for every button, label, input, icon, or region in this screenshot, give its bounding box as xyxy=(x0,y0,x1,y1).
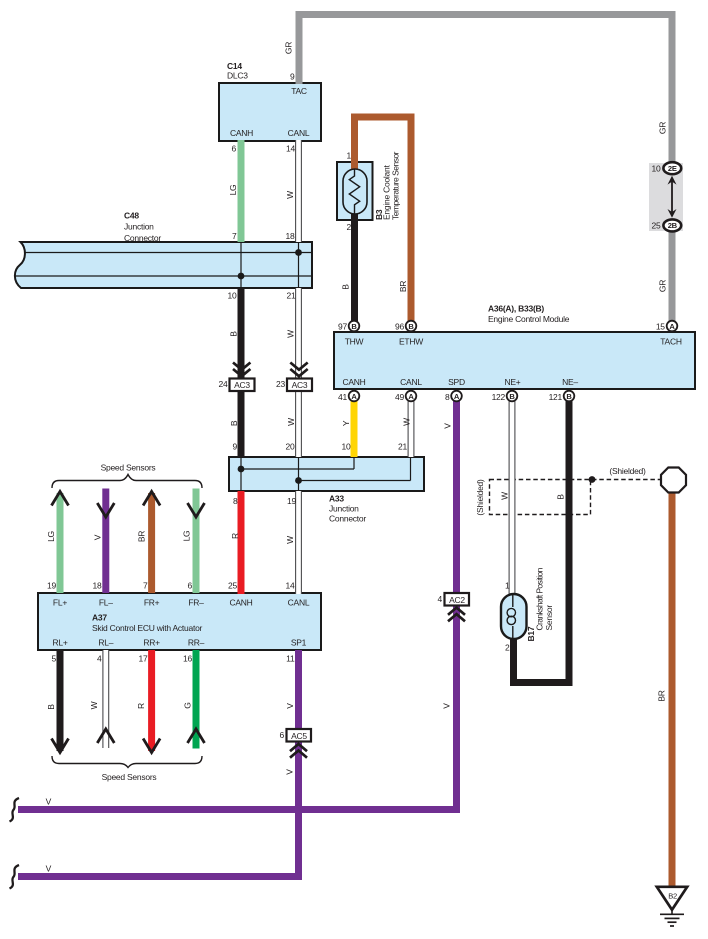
svg-text:LG: LG xyxy=(182,531,192,542)
C48 internal bus bar lower xyxy=(15,275,312,277)
speed sensors brace top xyxy=(52,475,202,489)
svg-text:V: V xyxy=(285,769,295,775)
svg-text:Connector: Connector xyxy=(329,514,366,524)
svg-text:A: A xyxy=(408,392,414,401)
connector AC3 chevrons pin23 xyxy=(290,363,307,377)
ECM pin circle 8 A xyxy=(451,391,462,402)
svg-text:10: 10 xyxy=(228,291,237,301)
wire BR speed sensor FR+ xyxy=(148,493,155,593)
svg-text:R: R xyxy=(136,703,146,709)
svg-text:FL–: FL– xyxy=(99,598,113,608)
wire LG speed sensor FR- xyxy=(193,489,200,594)
svg-text:V: V xyxy=(46,864,52,874)
ECM pin circle 15 A xyxy=(667,321,678,332)
wire V A37 SP1 to AC5 xyxy=(295,650,302,730)
sensor B3 resistor zigzag xyxy=(349,169,359,214)
svg-text:ETHW: ETHW xyxy=(399,337,423,347)
speed sensor arrow up RL- xyxy=(97,729,114,743)
ECU A36/B33 Engine Control Module box xyxy=(334,332,695,389)
connector AC3 chevrons pin24 xyxy=(233,363,250,377)
svg-text:RR–: RR– xyxy=(188,638,205,648)
svg-text:10: 10 xyxy=(652,164,661,174)
wire GR from DLC3 pin9 to connector 2E xyxy=(299,15,672,164)
svg-text:W: W xyxy=(402,418,412,426)
svg-text:THW: THW xyxy=(345,337,364,347)
svg-text:2: 2 xyxy=(505,643,510,653)
ECM pin circle 49 A xyxy=(406,391,417,402)
svg-text:A37: A37 xyxy=(92,613,107,623)
svg-text:TACH: TACH xyxy=(660,337,682,347)
svg-text:7: 7 xyxy=(143,581,148,591)
svg-text:AC3: AC3 xyxy=(234,380,250,390)
wire BR sensor B3 pin1 to ECM ETHW xyxy=(355,117,412,321)
svg-text:C48: C48 xyxy=(124,211,139,221)
svg-text:B: B xyxy=(566,392,572,401)
C48 internal bus bar upper xyxy=(25,252,312,254)
svg-text:49: 49 xyxy=(395,392,404,402)
svg-text:FR+: FR+ xyxy=(144,598,160,608)
svg-text:2E: 2E xyxy=(668,164,677,173)
svg-text:7: 7 xyxy=(232,231,237,241)
svg-text:AC2: AC2 xyxy=(449,595,465,605)
svg-text:SP1: SP1 xyxy=(291,638,307,648)
svg-text:CANL: CANL xyxy=(400,377,422,387)
svg-text:RL+: RL+ xyxy=(52,638,67,648)
sensor B17 coil xyxy=(512,594,514,607)
svg-text:CANL: CANL xyxy=(288,128,310,138)
svg-text:AC3: AC3 xyxy=(292,380,308,390)
svg-text:A36(A), B33(B): A36(A), B33(B) xyxy=(488,304,544,314)
svg-text:(Shielded): (Shielded) xyxy=(609,466,646,476)
svg-text:G: G xyxy=(183,702,193,708)
connector AC3 box pin24 xyxy=(230,379,255,392)
svg-text:18: 18 xyxy=(93,581,102,591)
svg-text:41: 41 xyxy=(338,392,347,402)
speed sensor arrow up RR- xyxy=(188,729,205,743)
A33 pass-through line pin20-19 xyxy=(298,457,300,491)
svg-text:CANH: CANH xyxy=(229,598,252,608)
svg-text:21: 21 xyxy=(398,442,407,452)
svg-text:Temperature Sensor: Temperature Sensor xyxy=(391,151,401,220)
svg-text:9: 9 xyxy=(233,442,238,452)
svg-text:Skid Control ECU with Actuator: Skid Control ECU with Actuator xyxy=(92,623,203,633)
svg-text:GR: GR xyxy=(658,122,668,134)
wire break squiggle at V wire 1 xyxy=(10,798,20,822)
svg-text:B: B xyxy=(46,704,56,710)
svg-text:B: B xyxy=(556,494,566,500)
A33 bus bar 1 xyxy=(241,468,354,470)
svg-text:122: 122 xyxy=(492,392,506,402)
svg-text:BR: BR xyxy=(398,281,408,292)
svg-text:A: A xyxy=(351,392,357,401)
wire LG speed sensor FL+ xyxy=(57,493,64,593)
svg-text:17: 17 xyxy=(139,654,148,664)
wire V speed sensor FL- xyxy=(102,489,109,594)
shield dashed box around NE+/NE- xyxy=(490,480,591,515)
wire break squiggle at V wire 2 xyxy=(10,865,20,889)
svg-text:B: B xyxy=(341,284,351,290)
wire R speed sensor RR+ xyxy=(148,650,155,751)
svg-text:5: 5 xyxy=(52,654,57,664)
ECU A37 Skid Control ECU box xyxy=(38,593,321,650)
svg-text:Engine Control Module: Engine Control Module xyxy=(488,314,570,324)
connector AC5 box xyxy=(287,729,312,742)
svg-text:LG: LG xyxy=(46,531,56,542)
ECM pin circle 97 B xyxy=(349,321,360,332)
wire B AC3 to A33 pin9 xyxy=(238,390,245,458)
svg-text:1: 1 xyxy=(347,151,352,161)
svg-text:NE–: NE– xyxy=(562,377,578,387)
wire V AC2 down then left to break xyxy=(18,605,457,810)
svg-text:19: 19 xyxy=(47,581,56,591)
wire V AC5 down then left to break xyxy=(18,741,299,877)
svg-text:Sensor: Sensor xyxy=(544,605,554,631)
sensor B3 thermistor capsule xyxy=(343,169,367,214)
ECM pin circle 96 B xyxy=(406,321,417,332)
wire B C48 pin10 to AC3 xyxy=(238,288,245,379)
svg-text:GR: GR xyxy=(658,280,668,292)
speed sensor arrow up FR+ xyxy=(143,492,160,506)
svg-text:4: 4 xyxy=(438,594,443,604)
svg-text:1: 1 xyxy=(505,581,510,591)
connector AC5 chevrons xyxy=(290,744,307,758)
C48 pass-through line pin7-10 xyxy=(240,242,242,288)
wire G speed sensor RR- xyxy=(193,650,200,749)
ECM pin circle 41 A xyxy=(349,391,360,402)
svg-text:Y: Y xyxy=(341,420,351,426)
svg-text:Connector: Connector xyxy=(124,233,161,243)
wire B speed sensor RL+ xyxy=(57,650,64,751)
connector pair double arrow xyxy=(671,181,673,213)
svg-text:BR: BR xyxy=(137,531,147,542)
A33 bus bar 2 xyxy=(299,480,411,482)
wire W CANL C14 to C48 pin18 xyxy=(295,140,302,242)
svg-text:FL+: FL+ xyxy=(53,598,67,608)
junction connector A33 body xyxy=(229,457,424,491)
svg-text:Speed Sensors: Speed Sensors xyxy=(102,772,157,782)
svg-text:B: B xyxy=(509,392,515,401)
svg-text:14: 14 xyxy=(286,144,295,154)
A33 junction dot pin20 xyxy=(295,477,302,484)
svg-text:FR–: FR– xyxy=(188,598,204,608)
ECM pin circle 122 B xyxy=(507,391,518,402)
A33 stub pin10 xyxy=(353,457,355,469)
svg-text:RR+: RR+ xyxy=(143,638,160,648)
C48 junction dot CANL xyxy=(295,249,302,256)
ground B2 triangle xyxy=(657,887,687,910)
sensor B3 box xyxy=(337,162,373,220)
svg-text:20: 20 xyxy=(286,442,295,452)
svg-text:21: 21 xyxy=(287,291,296,301)
svg-text:W: W xyxy=(500,492,510,500)
svg-text:B: B xyxy=(408,322,414,331)
svg-text:W: W xyxy=(285,536,295,544)
A33 stub pin21 xyxy=(410,457,412,481)
svg-text:B: B xyxy=(351,322,357,331)
speed sensor arrow down FL- xyxy=(97,503,114,517)
svg-text:18: 18 xyxy=(286,231,295,241)
svg-text:6: 6 xyxy=(280,730,285,740)
speed sensor arrow down FR- xyxy=(188,503,205,517)
svg-text:B: B xyxy=(229,331,239,337)
svg-text:6: 6 xyxy=(232,144,237,154)
wire W ECM NE+ to B17 pin1 xyxy=(509,401,516,595)
connector AC2 box xyxy=(445,593,470,606)
wire B ECM NE- to B17 pin2 xyxy=(514,401,570,683)
wire B sensor B3 pin2 to ECM THW xyxy=(351,213,358,321)
svg-text:C14: C14 xyxy=(227,61,242,71)
svg-text:97: 97 xyxy=(338,322,347,332)
svg-text:V: V xyxy=(443,423,453,429)
svg-text:V: V xyxy=(285,703,295,709)
svg-text:2B: 2B xyxy=(668,221,678,230)
svg-text:W: W xyxy=(286,418,296,426)
svg-text:V: V xyxy=(46,797,52,807)
svg-text:Junction: Junction xyxy=(124,222,154,232)
sensor B17 capsule xyxy=(501,594,527,639)
svg-text:AC5: AC5 xyxy=(291,731,307,741)
svg-text:TAC: TAC xyxy=(291,86,307,96)
ECM pin circle 121 B xyxy=(564,391,575,402)
svg-text:96: 96 xyxy=(395,322,404,332)
svg-text:A: A xyxy=(454,392,460,401)
wire W C48 pin21 to AC3 xyxy=(295,288,302,379)
wire BR octagon shield to ground B2 xyxy=(669,491,676,887)
svg-text:Crankshaft Position: Crankshaft Position xyxy=(535,567,545,630)
svg-text:CANH: CANH xyxy=(230,128,253,138)
svg-text:25: 25 xyxy=(228,581,237,591)
svg-text:6: 6 xyxy=(188,581,193,591)
svg-text:(Shielded): (Shielded) xyxy=(475,479,485,516)
junction connector C48 body xyxy=(15,242,312,288)
svg-text:19: 19 xyxy=(287,496,296,506)
connector pair 2E/2B shaded block xyxy=(649,163,683,231)
svg-text:8: 8 xyxy=(233,496,238,506)
svg-text:10: 10 xyxy=(342,442,351,452)
svg-text:W: W xyxy=(286,330,296,338)
speed sensor arrow up FL+ xyxy=(52,492,69,506)
C48 pass-through line pin18-21 xyxy=(298,242,300,288)
connector 2E oval xyxy=(663,162,681,174)
svg-text:A: A xyxy=(669,322,675,331)
svg-text:24: 24 xyxy=(219,379,228,389)
speed sensors brace bottom xyxy=(52,756,202,768)
wire W AC3 to A33 pin20 xyxy=(295,390,302,458)
wire LG CANH C14 to C48 pin7 xyxy=(238,140,245,242)
svg-text:15: 15 xyxy=(656,322,665,332)
svg-text:R: R xyxy=(230,533,240,539)
A33 pass-through line pin9-8 xyxy=(240,457,242,491)
svg-text:A33: A33 xyxy=(329,494,344,504)
wire Y ECM CANH to A33 pin10 xyxy=(351,401,358,457)
svg-text:121: 121 xyxy=(549,392,563,402)
speed sensor arrow down RR+ xyxy=(143,739,160,753)
svg-text:W: W xyxy=(285,191,295,199)
svg-text:RL–: RL– xyxy=(98,638,113,648)
svg-text:2: 2 xyxy=(347,222,352,232)
svg-text:BR: BR xyxy=(657,690,667,701)
svg-text:V: V xyxy=(442,703,452,709)
wire W ECM CANL to A33 pin21 xyxy=(408,401,415,457)
shield ground octagon xyxy=(661,468,686,493)
wire R A33 pin8 to A37 CANH xyxy=(238,491,245,594)
svg-text:8: 8 xyxy=(445,392,450,402)
svg-text:SPD: SPD xyxy=(448,377,465,387)
svg-text:11: 11 xyxy=(286,654,295,664)
A33 junction dot pin9 xyxy=(238,466,245,473)
svg-text:Speed Sensors: Speed Sensors xyxy=(101,463,156,473)
svg-text:B2: B2 xyxy=(668,892,677,901)
connector AC3 box pin23 xyxy=(287,379,312,392)
svg-text:CANH: CANH xyxy=(342,377,365,387)
shield dashed line to octagon xyxy=(592,479,661,481)
svg-text:GR: GR xyxy=(284,42,294,54)
wire W A33 pin19 to A37 CANL xyxy=(295,491,302,594)
svg-text:16: 16 xyxy=(183,654,192,664)
wire GR from connector 2B to ECM TACH xyxy=(669,231,676,322)
svg-text:9: 9 xyxy=(290,72,295,82)
svg-text:W: W xyxy=(89,701,99,709)
C48 junction dot CANH xyxy=(238,273,245,280)
svg-text:14: 14 xyxy=(286,581,295,591)
shield junction dot xyxy=(589,476,596,483)
svg-text:4: 4 xyxy=(97,654,102,664)
wire W speed sensor RL- xyxy=(102,650,109,748)
svg-text:DLC3: DLC3 xyxy=(227,71,248,81)
svg-text:LG: LG xyxy=(228,185,238,196)
svg-text:25: 25 xyxy=(652,221,661,231)
svg-text:B: B xyxy=(229,420,239,426)
svg-text:NE+: NE+ xyxy=(504,377,520,387)
connector 2B oval xyxy=(663,219,681,231)
svg-text:23: 23 xyxy=(276,379,285,389)
speed sensor arrow down RL+ xyxy=(52,739,69,753)
connector C14 DLC3 box xyxy=(219,83,321,141)
svg-text:Junction: Junction xyxy=(329,504,359,514)
connector AC2 chevrons xyxy=(448,608,465,622)
wire V ECM SPD to AC2 xyxy=(453,401,460,594)
svg-text:CANL: CANL xyxy=(288,598,310,608)
svg-text:V: V xyxy=(93,534,103,540)
